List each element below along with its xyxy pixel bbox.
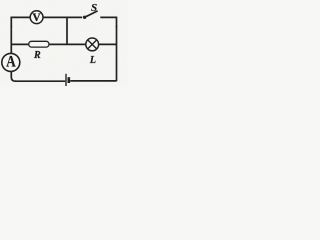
svg-text:V: V (32, 12, 41, 24)
switch S lever (85, 11, 98, 17)
wire ammeter to bottom-left rounded corner (11, 71, 16, 81)
ammeter A1 circle (2, 53, 20, 71)
wire bottom left to battery (15, 80, 65, 82)
wire middle vertical (top wire to middle wire) (66, 18, 68, 44)
lamp L cross (88, 40, 97, 49)
lamp L circle (86, 38, 99, 51)
wire left vertical (top corner to ammeter) (10, 26, 12, 53)
wire lamp to right vertical (99, 43, 117, 45)
background (0, 0, 128, 87)
wire voltmeter to switch (43, 16, 82, 18)
svg-text:R: R (33, 50, 41, 61)
wire right vertical (116, 26, 118, 81)
wire left node to resistor (11, 43, 29, 45)
voltmeter V1 circle (30, 11, 43, 24)
wire resistor to middle junction and to lamp (49, 43, 86, 45)
svg-text:S: S (91, 2, 97, 14)
wire top-left corner to voltmeter (11, 17, 30, 27)
battery long plate (positive) (65, 74, 67, 86)
resistor R box (29, 41, 49, 47)
svg-text:A: A (6, 54, 16, 71)
battery short thick plate (negative) (68, 77, 71, 83)
svg-text:L: L (89, 55, 96, 66)
wire battery to bottom-right corner (70, 80, 116, 82)
wire switch to top-right corner (100, 17, 116, 27)
switch S pivot dot (83, 16, 86, 19)
